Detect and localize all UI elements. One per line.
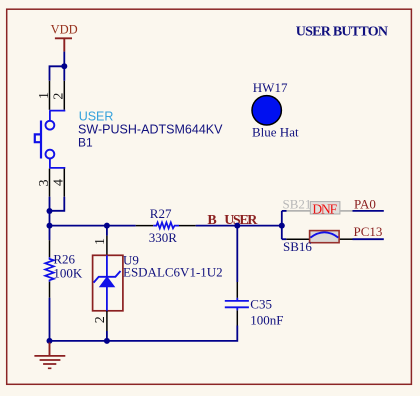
wire to pin 1 <box>50 66 65 81</box>
svg-text:100K: 100K <box>53 265 83 280</box>
svg-text:SB16: SB16 <box>283 239 312 254</box>
svg-text:HW17: HW17 <box>253 80 288 95</box>
wire SB16 stub left <box>282 238 287 240</box>
wire to PC13 <box>353 238 384 240</box>
node switch output <box>47 208 53 214</box>
svg-text:DNF: DNF <box>312 201 337 216</box>
wire SB21 stub left <box>282 210 287 212</box>
wire pin4 to node <box>50 197 65 211</box>
wire U9 to ground rail <box>106 331 108 341</box>
svg-text:R27: R27 <box>150 206 172 221</box>
resistor R27 <box>136 206 196 245</box>
svg-text:PC13: PC13 <box>354 224 383 239</box>
svg-text:2: 2 <box>93 316 108 323</box>
wire SB vertical <box>281 211 283 239</box>
node U9 bottom <box>104 338 110 344</box>
wire C35 to ground rail <box>50 326 238 341</box>
switch B1 pin 2 <box>63 81 65 110</box>
node C35 top <box>234 223 240 229</box>
svg-text:B: B <box>207 213 216 228</box>
ground <box>34 343 65 369</box>
wire main horizontal left <box>50 225 136 227</box>
wire B_USER down to C35 <box>236 226 238 282</box>
node main left <box>47 223 53 229</box>
solder bridge SB21 (DNF) <box>283 196 353 216</box>
svg-text:C35: C35 <box>250 296 272 311</box>
svg-text:ESDALC6V1-1U2: ESDALC6V1-1U2 <box>123 265 223 280</box>
svg-text:VDD: VDD <box>51 23 78 37</box>
svg-text:Blue Hat: Blue Hat <box>252 124 299 139</box>
esd diode U9 <box>93 226 223 331</box>
svg-text:100nF: 100nF <box>250 312 283 327</box>
wire VDD to switch <box>63 52 65 67</box>
switch B1 pin 3 <box>49 169 51 197</box>
power port VDD <box>51 23 78 52</box>
hardware HW17 blue hat <box>252 80 299 139</box>
svg-text:USER BUTTON: USER BUTTON <box>296 24 388 39</box>
wire down to main node <box>49 211 51 226</box>
solder bridge SB16 <box>283 231 353 255</box>
wire R26 to ground rail <box>49 298 51 341</box>
svg-text:3: 3 <box>37 180 52 187</box>
svg-text:SW-PUSH-ADTSM644KV: SW-PUSH-ADTSM644KV <box>78 122 223 136</box>
resistor R26 <box>45 226 83 298</box>
node U9 top <box>104 223 110 229</box>
svg-text:USER: USER <box>224 213 258 228</box>
wire pin3 to node <box>49 197 51 211</box>
switch B1 pin 4 <box>63 169 65 197</box>
node VDD junction <box>61 63 67 69</box>
capacitor C35 <box>225 282 284 327</box>
switch B1 pin 1 <box>49 81 51 110</box>
node ground left <box>47 338 53 344</box>
wire to PA0 <box>353 210 384 212</box>
svg-text:PA0: PA0 <box>354 196 376 211</box>
node SB split <box>279 223 285 229</box>
wire to pin 2 <box>63 66 65 81</box>
wire main horizontal right <box>196 225 282 227</box>
svg-text:1: 1 <box>37 92 52 99</box>
switch B1 body <box>35 111 66 168</box>
svg-text:SB21: SB21 <box>283 196 312 211</box>
svg-text:1: 1 <box>93 238 108 245</box>
svg-text:B1: B1 <box>78 135 93 149</box>
svg-text:2: 2 <box>51 93 66 100</box>
svg-text:330R: 330R <box>149 230 178 245</box>
